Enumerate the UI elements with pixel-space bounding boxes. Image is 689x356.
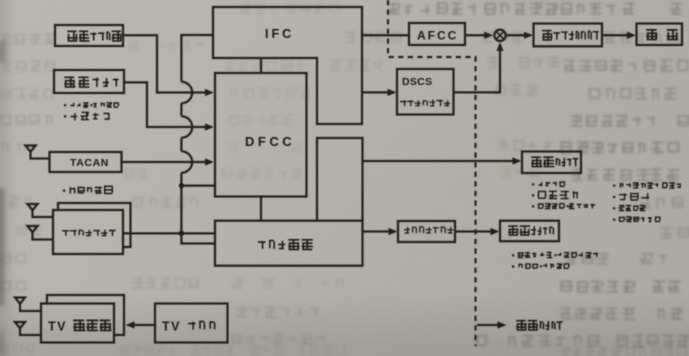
- arrowhead into operation-system-2: [491, 228, 500, 235]
- wire IFC to DSCS: [362, 91, 391, 93]
- junction dot bus-transponder: [179, 231, 184, 236]
- wire DFCC-relay connector: [260, 197, 262, 221]
- arrowhead into DSCS: [388, 89, 397, 96]
- wire actuator to operation-system-2: [455, 230, 494, 232]
- arrowheads and junction dots: [126, 32, 637, 329]
- arrowhead into TV-transmitter: [126, 321, 135, 328]
- wire sensor-bus segment2: [180, 103, 182, 116]
- wire sensor-bus hop3: [181, 151, 192, 173]
- summing-junction cross: [496, 31, 504, 39]
- label flap-etc: [532, 181, 595, 209]
- label daben: [646, 29, 678, 40]
- wire IFC to AFCC: [362, 34, 409, 36]
- arrowhead into main-actuator: [524, 32, 533, 39]
- latin text labels: [48, 27, 458, 334]
- box existing-sensors (既存センサ等): [55, 25, 123, 46]
- svg-text:TV: TV: [48, 320, 67, 334]
- pseudo CJK labels: [62, 29, 681, 331]
- arrowhead into AFCC-sum: [484, 32, 493, 39]
- antenna TV-2: [15, 322, 41, 335]
- arrowhead into DFCC y162: [205, 158, 214, 165]
- box relay-assembly tower: [317, 138, 363, 221]
- antenna TV-1: [15, 298, 41, 312]
- box control-surface (舵面): [637, 24, 683, 46]
- wire DSCS to summing-junction: [454, 47, 501, 93]
- wire tower to operation-system-1: [363, 160, 517, 162]
- label relay-kumitate: [258, 239, 313, 250]
- scanner smudge left edge: [0, 42, 6, 356]
- antenna transponder-1: [28, 204, 54, 217]
- wire IFC-DFCC connector: [260, 58, 262, 73]
- label rate-gyro-accel: [64, 102, 119, 120]
- arrowhead into control-surface: [627, 32, 636, 39]
- label filter-incl: [63, 186, 113, 195]
- antenna TACAN: [26, 146, 50, 159]
- wire sensor-bus to IFC: [181, 35, 213, 82]
- dashed boundary new/existing systems: [388, 0, 476, 346]
- junction dot bus-DFCC tap: [179, 183, 184, 188]
- box TACAN: [50, 152, 122, 172]
- svg-text:DSCS: DSCS: [402, 76, 432, 88]
- box transponder (トランスポンダ): [53, 210, 123, 254]
- arrowhead into DFCC y92: [205, 89, 214, 96]
- box main-actuator (主アクチュエータ): [534, 24, 603, 47]
- arrowhead up into summing-junction: [496, 42, 503, 51]
- wire sensor-bus segment3: [180, 138, 182, 151]
- wire summing-junction to main-actuator: [506, 34, 528, 36]
- wire relay-assembly to actuator: [363, 230, 393, 232]
- wire main-actuator to control-surface: [602, 34, 631, 36]
- wire existing-system stub: [477, 324, 501, 326]
- box TV-transmitter back shell: [47, 295, 124, 335]
- arrowhead into operation-system-1: [513, 157, 522, 164]
- wire existing-sensors to DFCC: [123, 35, 209, 92]
- wire TACAN to DFCC: [122, 161, 210, 163]
- svg-text:DFCC: DFCC: [245, 134, 295, 149]
- antenna transponder-2: [28, 226, 54, 240]
- label kizon-sensa-tou: [67, 31, 122, 42]
- svg-text:TACAN: TACAN: [70, 157, 109, 169]
- box transponder back shell: [58, 203, 131, 247]
- label arresting-etc: [613, 182, 681, 222]
- label tv-soushinki: [73, 320, 111, 332]
- svg-text:IFC: IFC: [265, 27, 294, 41]
- wire TV-camera to TV-transmitter: [131, 324, 155, 326]
- label tsuika-sensa: [64, 77, 118, 88]
- box IFC (L-shaped): [213, 7, 362, 124]
- box operation-system-1 (作動システム): [522, 152, 581, 174]
- box actuator (アクチュエータ): [398, 221, 455, 242]
- wire additional-sensors to DFCC: [124, 82, 209, 127]
- arrowhead into actuator: [389, 228, 398, 235]
- wire transponder to relay-assembly: [123, 232, 215, 234]
- label throttle-etc: [512, 252, 598, 269]
- label dscs-actuator: [400, 100, 450, 107]
- box AFCC: [409, 23, 465, 45]
- box DSCS-actuator: [397, 69, 454, 115]
- arrowhead existing-system: [498, 321, 507, 328]
- box additional-sensors (追加センサ): [54, 70, 124, 93]
- svg-text:TV: TV: [162, 320, 181, 334]
- label sadou-system-1: [531, 156, 578, 167]
- arrowhead into DFCC y127: [205, 123, 214, 130]
- box relay-assembly (リレー組立): [215, 221, 363, 266]
- svg-text:AFCC: AFCC: [417, 29, 458, 43]
- wire AFCC to summing-junction: [465, 34, 488, 36]
- box DFCC: [215, 73, 307, 197]
- wire sensor-bus segment4 to relay: [181, 173, 215, 244]
- label actuator-mid: [404, 226, 453, 233]
- label shu-actuator: [542, 30, 599, 41]
- wire bus tap to DFCC: [181, 184, 214, 186]
- box TV-transmitter (TV送信機): [41, 304, 114, 343]
- label sadou-system-2: [508, 225, 554, 235]
- label transponder: [62, 230, 116, 237]
- summing-junction circle: [494, 30, 505, 41]
- label tv-camera: [188, 321, 215, 330]
- label kizon-system: [516, 320, 563, 331]
- wire sensor-bus hop2: [181, 116, 192, 138]
- wire sensor-bus hop1: [181, 82, 192, 104]
- box TV-camera (TVカメラ): [155, 304, 228, 343]
- box operation-system-2 (作動システム): [500, 221, 559, 242]
